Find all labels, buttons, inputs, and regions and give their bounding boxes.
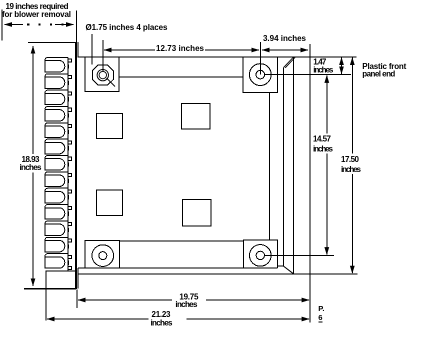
square cutout lower-right [182,200,210,226]
blower base block [46,271,76,289]
svg-text:14.57: 14.57 [313,135,332,144]
dimension 21.23 inches [47,310,309,327]
blower spine [67,57,69,271]
svg-text:inches: inches [341,165,362,174]
svg-text:6: 6 [318,313,322,322]
octagon boss top-left hole [92,65,113,85]
svg-text:inches: inches [175,300,198,309]
svg-text:3.94 inches: 3.94 inches [263,34,307,43]
svg-text:12.73 inches: 12.73 inches [156,44,205,53]
blower serpentine fins [45,57,69,268]
hole TR [249,64,271,86]
blower bottom edge [24,288,76,290]
inner opening right edge [269,93,271,240]
extension line TL hole center [102,40,104,72]
svg-text:P.: P. [318,304,324,313]
tick left of 19in note [1,9,3,40]
center line BR hole to right [265,254,335,256]
pad bottom-right [244,240,278,268]
hole TL inner circles [99,71,106,78]
tick right of 19in note [76,10,78,43]
svg-text:inches: inches [313,66,334,75]
extension line left 21.23 [45,271,47,321]
dimension 12.73 inches [104,44,259,53]
pad top-right [243,57,278,93]
panel face bottom edge [78,267,278,269]
blower top edge [28,42,76,44]
square cutout lower-left [97,190,123,215]
bottom bevel [278,266,294,274]
chassis left double edge [75,42,77,289]
dimension 1.47 inches [313,58,341,75]
square cutout upper-left [97,113,123,138]
extension line left 19.75 [76,290,78,309]
dimension 19.75 inches [78,292,309,309]
extension line TR hole [259,42,261,75]
marker text P.6 [318,304,324,322]
inner opening top edge [119,76,243,78]
inner opening bottom edge [119,240,243,242]
dimension 18.93 inches [20,46,43,286]
svg-text:Ø1.75 inches 4 places: Ø1.75 inches 4 places [86,23,169,32]
note: plastic front panel end [362,62,406,79]
svg-text:inches: inches [151,318,174,327]
square cutout upper-right [182,104,210,129]
dimension 3.94 inches [262,34,308,50]
svg-text:inches: inches [20,163,43,172]
hole TL slash [107,78,116,87]
svg-text:inches: inches [313,145,334,154]
dimension 17.50 inches [341,58,362,274]
panel right edge [309,44,311,323]
hole BL [92,245,114,267]
pad bottom-left [85,240,120,268]
chassis bottom edge [78,273,310,275]
dimension line 19 inches (arrows + dots) [5,23,74,25]
extension top edge right [310,56,357,58]
leader from dia label [91,34,93,65]
svg-text:for blower removal: for blower removal [2,10,71,19]
top bevel diagonals [283,57,293,68]
note: 19 inches required for blower removal [2,2,71,19]
svg-text:panel end: panel end [362,70,395,79]
bevel vertical [282,68,284,266]
center line TR hole to right [265,74,351,76]
dimension 14.57 inches [313,75,334,254]
extension bottom edge right [310,273,357,275]
spine bumps [68,59,71,269]
plastic panel inner edge [293,57,295,274]
svg-text:17.50: 17.50 [341,155,360,164]
panel top edge [78,56,310,58]
hole BR [249,245,271,267]
pad top-left [85,57,119,92]
